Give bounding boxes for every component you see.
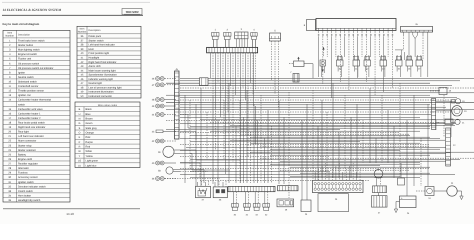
rear lights loom (436, 101, 455, 122)
svg-text:20: 20 (8, 131, 11, 134)
svg-text:Starter switch: Starter switch (89, 39, 105, 42)
svg-text:25: 25 (8, 153, 11, 156)
svg-text:Low oil pressure warning light: Low oil pressure warning light (89, 86, 122, 89)
svg-text:18: 18 (8, 122, 11, 125)
svg-text:1: 1 (9, 39, 11, 42)
svg-text:Left hand front indicator: Left hand front indicator (89, 44, 115, 47)
svg-text:21: 21 (8, 135, 11, 138)
bullet connector 36 (152, 177, 176, 181)
svg-text:35: 35 (415, 23, 418, 26)
main wiring bus upper (166, 78, 474, 114)
svg-text:Instrument connector: Instrument connector (89, 95, 113, 98)
svg-text:24: 24 (428, 197, 431, 200)
svg-text:49: 49 (81, 91, 84, 94)
svg-text:Speedometer illumination: Speedometer illumination (89, 74, 118, 77)
starter solenoid 24 (416, 187, 434, 201)
svg-text:R: R (79, 146, 81, 149)
svg-text:Carburettor heater 1: Carburettor heater 1 (18, 112, 41, 115)
svg-text:39: 39 (81, 48, 84, 51)
svg-text:22: 22 (453, 144, 456, 147)
svg-text:Starter button: Starter button (18, 44, 34, 47)
svg-text:47: 47 (81, 82, 84, 85)
oil pressure switch 6 (200, 78, 209, 86)
svg-text:3: 3 (241, 28, 243, 31)
main harness connector bar 40 (175, 68, 180, 139)
svg-text:37: 37 (201, 199, 204, 202)
svg-text:Front position light: Front position light (89, 52, 110, 55)
svg-text:27: 27 (8, 163, 11, 166)
svg-text:B: B (79, 108, 81, 111)
svg-text:19: 19 (462, 100, 465, 103)
svg-text:P: P (79, 141, 81, 144)
key caption (3, 22, 40, 26)
battery earth (394, 202, 399, 213)
svg-text:Description: Description (89, 29, 102, 32)
component row 10-17 (320, 55, 423, 77)
bullet connector 48 (152, 98, 176, 102)
svg-text:O: O (79, 132, 81, 135)
svg-text:7: 7 (9, 67, 11, 70)
sidestand switch 38 (158, 167, 180, 174)
horn 39 (158, 146, 180, 157)
svg-text:28: 28 (8, 167, 11, 170)
alarm connector 22 (446, 128, 457, 166)
connector block 28 (277, 186, 298, 212)
header rule (2, 14, 143, 16)
bullet connector 44 (152, 113, 176, 117)
svg-text:20: 20 (464, 110, 467, 113)
wire colour code table (75, 102, 140, 168)
svg-text:Clutch switch: Clutch switch (18, 190, 33, 193)
svg-text:Orange: Orange (86, 132, 95, 135)
page top edge line (2, 1, 150, 3)
rear light 20 (452, 106, 467, 116)
svg-text:Main lighting switch: Main lighting switch (18, 49, 40, 52)
svg-text:Diode pack: Diode pack (89, 35, 102, 38)
svg-text:23: 23 (451, 182, 454, 185)
svg-text:9: 9 (9, 76, 11, 79)
svg-text:50: 50 (81, 95, 84, 98)
svg-text:3: 3 (9, 49, 11, 52)
svg-text:32: 32 (8, 185, 11, 188)
svg-text:42: 42 (152, 140, 155, 143)
svg-text:N: N (79, 117, 81, 120)
starter motor 23 (434, 182, 463, 200)
svg-text:LG: LG (78, 160, 81, 163)
svg-text:35: 35 (8, 199, 11, 202)
svg-text:41: 41 (81, 56, 84, 59)
clutch connector drops (272, 41, 279, 108)
svg-text:14 ELECTRICAL & IGNITION SYSTE: 14 ELECTRICAL & IGNITION SYSTEM (3, 8, 63, 12)
svg-text:Oil pressure switch: Oil pressure switch (18, 62, 40, 65)
svg-text:Throttle position sensor: Throttle position sensor (18, 90, 44, 93)
bullet connector 49 (152, 104, 176, 108)
svg-text:S: S (79, 127, 81, 130)
svg-text:33: 33 (255, 214, 258, 217)
bullet connector 42 (152, 139, 176, 143)
svg-text:36: 36 (81, 35, 84, 38)
svg-text:Black: Black (86, 108, 93, 111)
svg-text:2: 2 (227, 28, 229, 31)
bullet connector 46 (152, 77, 176, 81)
svg-text:26: 26 (8, 158, 11, 161)
svg-text:Fusebox: Fusebox (18, 172, 28, 175)
rear harness bar (432, 99, 436, 130)
svg-text:30: 30 (234, 214, 237, 217)
svg-text:Starter relay: Starter relay (18, 144, 32, 147)
svg-text:30: 30 (8, 176, 11, 179)
svg-text:28: 28 (285, 209, 288, 212)
svg-text:29: 29 (335, 198, 338, 201)
svg-text:38: 38 (219, 199, 222, 202)
svg-text:Main beam warning light: Main beam warning light (89, 69, 116, 72)
svg-text:G: G (79, 122, 81, 125)
svg-text:Accessory socket: Accessory socket (18, 176, 38, 179)
plug 32 (263, 192, 270, 217)
svg-text:45: 45 (175, 68, 178, 71)
svg-text:Red: Red (86, 146, 91, 149)
svg-text:Carburettor heater 2: Carburettor heater 2 (18, 117, 41, 120)
svg-text:Right hand rear indicator: Right hand rear indicator (18, 126, 46, 129)
svg-text:Rear light: Rear light (18, 131, 29, 134)
plug 34 (244, 192, 251, 217)
main wiring bus lower (166, 118, 474, 181)
svg-text:18: 18 (449, 90, 452, 93)
Triumph logo (122, 9, 142, 15)
svg-text:34: 34 (246, 214, 249, 217)
diode unit 6 (289, 57, 313, 79)
svg-text:Alarm connector: Alarm connector (18, 140, 36, 143)
page title (3, 8, 63, 12)
svg-text:Neutral switch: Neutral switch (18, 76, 34, 79)
key table 2 items 36-50 (77, 26, 141, 98)
svg-text:TRIUMPH: TRIUMPH (125, 11, 139, 14)
svg-text:Engine kill switch: Engine kill switch (18, 53, 38, 56)
accessory socket 30 (445, 119, 460, 125)
svg-text:2: 2 (9, 44, 11, 47)
svg-text:Front brake lever switch: Front brake lever switch (18, 39, 45, 42)
svg-text:Light blue: Light blue (86, 164, 97, 167)
svg-text:Yellow: Yellow (86, 155, 93, 158)
svg-text:Slate grey: Slate grey (86, 127, 98, 130)
svg-text:Direction indicator switch: Direction indicator switch (18, 185, 46, 188)
svg-text:19: 19 (8, 126, 11, 129)
svg-text:Rectifier regulator: Rectifier regulator (18, 163, 38, 166)
svg-text:Alternator: Alternator (18, 167, 29, 170)
svg-text:5: 5 (274, 30, 276, 33)
svg-text:14.10: 14.10 (66, 212, 74, 216)
svg-text:39: 39 (158, 151, 161, 154)
svg-text:Alarm LED: Alarm LED (89, 65, 101, 68)
instrument cluster 50 (316, 19, 396, 36)
svg-text:Blue: Blue (86, 113, 92, 116)
svg-text:44: 44 (81, 69, 84, 72)
svg-text:Carburettor heater thermostat: Carburettor heater thermostat (18, 99, 51, 102)
svg-text:10: 10 (8, 80, 11, 83)
svg-text:Key to main circuit diagram: Key to main circuit diagram (3, 22, 40, 26)
svg-text:24: 24 (8, 149, 11, 152)
svg-text:switch: switch (18, 103, 26, 106)
fusebox feed wires (315, 163, 360, 180)
svg-text:33: 33 (8, 190, 11, 193)
ignition switch 37 (196, 181, 211, 202)
svg-text:Igniter: Igniter (18, 71, 25, 74)
igniter unit 8 (304, 20, 316, 31)
svg-text:Crankshaft sensor: Crankshaft sensor (18, 85, 38, 88)
svg-text:48: 48 (81, 86, 84, 89)
battery 25 (400, 196, 417, 215)
switch connector 4 (251, 28, 258, 47)
svg-text:46: 46 (152, 78, 155, 81)
bullet connector 40 (152, 161, 176, 165)
svg-text:Ignition coil: Ignition coil (18, 94, 31, 97)
handlebar connector bar (207, 47, 258, 52)
svg-text:27: 27 (378, 212, 381, 215)
svg-text:Left hand rear indicator: Left hand rear indicator (18, 135, 44, 138)
svg-text:34: 34 (8, 194, 11, 197)
plug 30 (232, 192, 239, 217)
left rear indicator 21 (462, 122, 465, 125)
svg-text:Battery: Battery (18, 153, 27, 156)
svg-text:Y: Y (79, 155, 81, 158)
relay box (398, 163, 405, 185)
svg-text:4: 4 (253, 28, 255, 31)
svg-text:Ignition switch: Ignition switch (18, 181, 34, 184)
bullet connector 43 (152, 130, 176, 133)
diode pack 38 (213, 181, 227, 202)
svg-text:21: 21 (462, 122, 465, 125)
svg-text:LU: LU (78, 164, 81, 167)
svg-text:47: 47 (152, 84, 155, 87)
svg-text:13: 13 (8, 94, 11, 97)
svg-text:Headlight: Headlight (89, 56, 100, 59)
svg-text:Horn button: Horn button (18, 194, 32, 197)
svg-text:17: 17 (8, 117, 11, 120)
left area bend wires (165, 115, 241, 184)
svg-text:40: 40 (152, 162, 155, 165)
svg-text:8: 8 (304, 24, 306, 27)
clutch switch connector 5 (270, 30, 281, 42)
svg-text:43: 43 (152, 130, 155, 133)
svg-text:Neutral light: Neutral light (89, 82, 103, 85)
svg-text:Light green: Light green (86, 160, 99, 163)
svg-text:44: 44 (152, 114, 155, 117)
svg-text:22: 22 (8, 140, 11, 143)
svg-text:45: 45 (81, 74, 84, 77)
svg-text:Instrument illumination: Instrument illumination (89, 91, 115, 94)
svg-text:11: 11 (8, 85, 11, 88)
relay 26 (301, 200, 311, 216)
starter relay box (318, 194, 349, 212)
switch connector 3 (235, 28, 248, 48)
svg-text:Right hand front indicator: Right hand front indicator (89, 61, 117, 64)
svg-text:29: 29 (8, 172, 11, 175)
svg-text:31: 31 (8, 181, 11, 184)
svg-text:Number: Number (78, 31, 87, 34)
svg-text:48: 48 (152, 99, 155, 102)
right rear indicator 19 (452, 99, 466, 104)
svg-text:Number: Number (5, 35, 14, 38)
svg-text:46: 46 (81, 78, 84, 81)
svg-text:26: 26 (305, 213, 308, 216)
svg-text:16: 16 (8, 112, 11, 115)
svg-text:Description: Description (18, 33, 31, 36)
svg-text:8: 8 (9, 71, 11, 74)
rear brake switch 18 (430, 88, 452, 95)
svg-text:Engine earth: Engine earth (18, 158, 33, 161)
svg-text:15: 15 (8, 108, 11, 111)
svg-text:White: White (86, 150, 93, 153)
svg-text:Green: Green (86, 122, 94, 125)
fusebox 29 (313, 180, 364, 201)
svg-text:23: 23 (8, 144, 11, 147)
headlight unit 35 (401, 23, 433, 32)
svg-text:32: 32 (265, 214, 268, 217)
svg-text:7: 7 (290, 71, 292, 74)
svg-text:4: 4 (9, 53, 11, 56)
svg-text:12: 12 (8, 90, 11, 93)
svg-text:37: 37 (81, 39, 84, 42)
svg-text:38: 38 (81, 44, 84, 47)
svg-text:1: 1 (215, 28, 217, 31)
svg-text:25: 25 (407, 212, 410, 215)
svg-text:Oil pressure switch out indica: Oil pressure switch out indicator (18, 67, 54, 70)
page number (66, 212, 74, 216)
plug 33 (253, 192, 260, 217)
svg-text:Flasher unit: Flasher unit (18, 58, 31, 61)
flasher unit 7 (290, 71, 299, 82)
svg-text:Horn: Horn (89, 48, 95, 51)
footer rule (3, 208, 140, 210)
svg-text:Headlight dip switch: Headlight dip switch (18, 199, 41, 202)
svg-text:W: W (78, 150, 81, 153)
svg-text:49: 49 (152, 105, 155, 108)
key table 1 items 1-35 (3, 30, 70, 202)
svg-text:Purple: Purple (86, 141, 94, 144)
svg-text:Pink: Pink (86, 136, 92, 139)
bullet connector 47 (152, 83, 176, 87)
harness drops from handlebar bar (211, 53, 256, 183)
svg-text:40: 40 (81, 52, 84, 55)
fuel sensor 9 (322, 47, 325, 72)
svg-text:Indicator warning light: Indicator warning light (89, 78, 114, 81)
svg-text:K: K (79, 136, 81, 139)
svg-text:U: U (79, 113, 81, 116)
main connector bar (228, 186, 275, 191)
svg-text:5: 5 (9, 58, 11, 61)
svg-text:Carburettor vent valve: Carburettor vent valve (18, 108, 43, 111)
svg-text:36: 36 (152, 178, 155, 181)
svg-text:Rear brake pedal switch: Rear brake pedal switch (18, 122, 45, 125)
svg-text:Brown: Brown (86, 117, 94, 120)
switch connector 1 (212, 28, 220, 47)
svg-text:14: 14 (8, 99, 11, 102)
svg-text:Wire colour codes: Wire colour codes (98, 104, 118, 107)
svg-text:6: 6 (9, 62, 11, 65)
lower harness verticals (185, 83, 451, 200)
headlight wires (395, 32, 428, 77)
svg-text:43: 43 (81, 65, 84, 68)
ignition switch stack 31 (372, 170, 388, 215)
switch connector 2 (224, 28, 232, 47)
svg-text:Starter solenoid: Starter solenoid (18, 149, 36, 152)
svg-text:42: 42 (81, 61, 84, 64)
svg-text:Sidestand switch: Sidestand switch (18, 80, 37, 83)
svg-text:38: 38 (158, 170, 161, 173)
instrument cluster drops (319, 36, 393, 98)
